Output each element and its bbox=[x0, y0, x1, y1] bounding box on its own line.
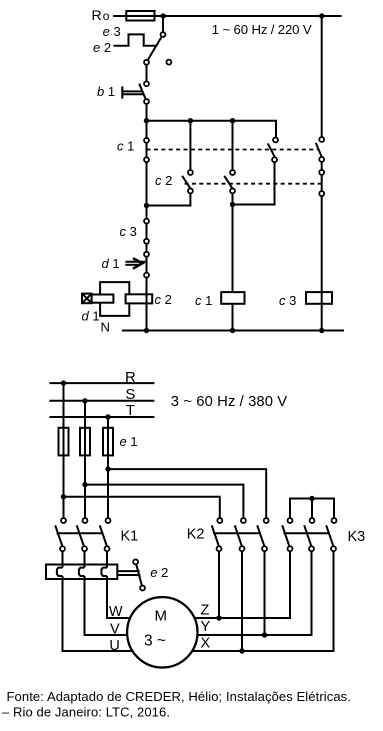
wire c1 coil to N bbox=[232, 304, 234, 331]
wire phase bus T bbox=[49, 416, 154, 418]
contact d1 NC upper circle bbox=[144, 252, 149, 257]
svg-text:S: S bbox=[125, 386, 135, 403]
switch e3 upper contact circle bbox=[161, 32, 166, 37]
coil d1 rectangle bbox=[92, 295, 114, 303]
node junction dot bus right bbox=[230, 118, 235, 123]
wire R drop bbox=[63, 383, 65, 517]
contactor K1 pole3 blade bbox=[100, 525, 107, 545]
pushbutton b1 blade bbox=[139, 84, 146, 101]
node N dot c3 bbox=[319, 328, 324, 333]
wire T tap to K2 pole3 bbox=[108, 469, 266, 517]
contact c2 NO upper circle bbox=[188, 170, 193, 175]
node dot S tap to K2 bbox=[82, 482, 87, 487]
svg-text:N: N bbox=[101, 319, 110, 334]
contact c2 NO blade bbox=[182, 176, 190, 189]
svg-text:d 1: d 1 bbox=[82, 308, 100, 323]
node junction dot G self hold return bbox=[144, 203, 149, 208]
node dot K3 bridge bbox=[309, 496, 314, 501]
pushbutton b1 lower contact circle bbox=[144, 99, 149, 104]
svg-text:M: M bbox=[155, 608, 168, 625]
svg-text:e 2: e 2 bbox=[150, 565, 168, 580]
contact d1 NC lower circle bbox=[144, 273, 149, 278]
wire K1 pole2 to V bbox=[84, 552, 86, 568]
linkage dashed line c1 bbox=[147, 149, 318, 151]
overload e2 trip lever bbox=[117, 570, 139, 572]
pushbutton b1 plunger bar bbox=[121, 86, 123, 98]
contactor K3 pole blades bbox=[282, 525, 289, 545]
contactor K2 upper circles bbox=[217, 518, 222, 523]
wire from top junction down to e3 contact bbox=[162, 16, 164, 32]
contact c1c NO branch at x 275 bbox=[268, 143, 275, 157]
svg-text:Y: Y bbox=[201, 619, 211, 635]
svg-text:K2: K2 bbox=[187, 527, 205, 543]
contactor K1 pole2 blade bbox=[77, 525, 84, 545]
switch e3 spare contact circle bbox=[166, 60, 171, 65]
wire c1c branch L return bbox=[234, 163, 275, 205]
node dot R tap bbox=[61, 380, 66, 385]
svg-text:e 1: e 1 bbox=[120, 434, 138, 449]
svg-text:W: W bbox=[109, 604, 123, 620]
contact c3 NC lower circle bbox=[144, 239, 149, 244]
contact c1b NO blade bbox=[224, 176, 232, 189]
fuse e1 pole1 bbox=[59, 428, 69, 456]
contact c2 self-hold branch wire bbox=[189, 121, 191, 170]
contactor K2 drop pole1 to Z bbox=[218, 552, 220, 618]
node dot T tap to K2 bbox=[105, 466, 110, 471]
svg-text:c 3: c 3 bbox=[279, 293, 296, 308]
linkage dashed line c2 bbox=[181, 183, 322, 185]
overload e2 trip contact circles bbox=[133, 559, 138, 564]
svg-text:c 2: c 2 bbox=[155, 292, 172, 307]
contactor K3 star bridge bbox=[290, 499, 334, 518]
wire phase bus R bbox=[49, 382, 154, 384]
wire K1 pole3 to W bbox=[106, 552, 108, 568]
svg-text:– Rio de Janeiro: LTC, 2016.: – Rio de Janeiro: LTC, 2016. bbox=[2, 705, 170, 720]
motor M circle bbox=[127, 597, 197, 667]
svg-text:R: R bbox=[125, 369, 136, 386]
svg-text:K3: K3 bbox=[348, 529, 366, 545]
overload relay e2 box bbox=[46, 565, 117, 580]
svg-text:K1: K1 bbox=[121, 528, 139, 544]
contactor K3 upper circles bbox=[288, 518, 293, 523]
switch e3 lower contact circle bbox=[144, 60, 149, 65]
contact c1b NO lower circle bbox=[230, 188, 235, 193]
coil c2 parallel loop top bbox=[100, 282, 129, 294]
svg-text:T: T bbox=[126, 402, 135, 419]
actuator d1 arrow shaft bbox=[125, 261, 146, 263]
wire horizontal bus below b1 bbox=[147, 121, 277, 137]
wire S drop bbox=[84, 401, 86, 518]
wire R tap to K2 pole1 bbox=[64, 497, 220, 518]
svg-text:U: U bbox=[109, 638, 119, 654]
svg-text:e 2: e 2 bbox=[93, 40, 111, 55]
svg-text:3 ~: 3 ~ bbox=[144, 632, 166, 649]
actuator e2 step linkage bbox=[114, 34, 157, 45]
svg-text:V: V bbox=[110, 621, 120, 637]
coil c2 parallel loop bottom bbox=[100, 303, 129, 316]
wire right branch vertical bbox=[321, 16, 323, 137]
wire b1 to bus junction bbox=[146, 104, 148, 120]
contactor K1 pole1 blade bbox=[55, 525, 62, 545]
contact c1b NO upper circle bbox=[230, 170, 235, 175]
contactor K1 lower circles bbox=[60, 546, 65, 551]
wire c1 contact down to coil bbox=[232, 194, 234, 292]
svg-text:c 3: c 3 bbox=[120, 224, 137, 239]
svg-text:e 3: e 3 bbox=[103, 24, 121, 39]
contact c1 NC lower circle bbox=[144, 157, 149, 162]
contactor K1 upper circles bbox=[61, 518, 66, 523]
contact c1d NO blade right branch bbox=[316, 143, 322, 157]
node N dot c1 bbox=[230, 328, 235, 333]
svg-text:c 2: c 2 bbox=[155, 173, 172, 188]
svg-text:o: o bbox=[103, 9, 110, 23]
coil c1 rectangle bbox=[221, 292, 244, 304]
wire right branch to coil c3 bbox=[321, 197, 323, 331]
wire between right branch contacts bbox=[321, 162, 323, 190]
node junction dot top right bbox=[319, 13, 324, 18]
overload e2 heater bump pole1 bbox=[57, 568, 63, 576]
contactor K1 linkage bbox=[57, 532, 104, 534]
wire motor Y lead bbox=[162, 552, 312, 635]
svg-text:Fonte: Adaptado de CREDER, Hél: Fonte: Adaptado de CREDER, Hélio; Instal… bbox=[7, 689, 352, 704]
svg-text:X: X bbox=[201, 635, 211, 651]
wire T drop bbox=[107, 417, 109, 518]
wire e3 to b1 bbox=[146, 65, 148, 81]
contactor K2 linkage bbox=[213, 532, 261, 534]
svg-text:3 ~ 60 Hz / 380 V: 3 ~ 60 Hz / 380 V bbox=[171, 394, 287, 410]
coil c2 rectangle bbox=[126, 294, 153, 303]
overload e2 heater bump pole3 bbox=[101, 568, 107, 576]
node junction dot bus left bbox=[144, 118, 149, 123]
actuator d1 arrow head bbox=[133, 258, 142, 268]
svg-text:c 1: c 1 bbox=[195, 293, 212, 308]
svg-text:b 1: b 1 bbox=[97, 84, 115, 99]
fuse e1 pole2 bbox=[80, 428, 90, 456]
pushbutton b1 upper contact circle bbox=[144, 81, 149, 86]
switch e3/e2 changeover blade bbox=[148, 37, 162, 60]
svg-text:1 ~ 60 Hz / 220 V: 1 ~ 60 Hz / 220 V bbox=[212, 22, 312, 37]
node N dot c2 bbox=[144, 328, 149, 333]
node dot T tap bbox=[105, 414, 110, 419]
wire main line through c2 coil to N bbox=[146, 294, 148, 330]
node junction dot at fuse output bbox=[161, 13, 166, 18]
overload e2 trip contact blade bbox=[136, 565, 142, 586]
wire phase bus S bbox=[49, 400, 154, 402]
wire S tap to K2 pole2 bbox=[85, 485, 243, 518]
svg-text:d 1: d 1 bbox=[102, 256, 120, 271]
wire motor X lead bbox=[162, 552, 334, 651]
contact c1d lower circle bbox=[319, 157, 324, 162]
node dot S tap bbox=[82, 398, 87, 403]
fuse Ro control fuse bbox=[126, 11, 154, 21]
contactor K2 lower circles bbox=[217, 546, 222, 551]
node junction dot c1 branch bbox=[230, 202, 235, 207]
wire motor Z lead bbox=[162, 552, 290, 618]
contactor K2 drop pole2 to X bbox=[241, 552, 243, 651]
node junction dot bus middle bbox=[188, 118, 193, 123]
contact c2b NC lower circle bbox=[319, 191, 324, 196]
contact c2b NC upper circle bbox=[319, 170, 324, 175]
contact c1c lower circle bbox=[272, 157, 277, 162]
contact c3 NC upper circle bbox=[144, 219, 149, 224]
svg-text:Z: Z bbox=[201, 603, 210, 619]
node dot R tap to K2 bbox=[61, 494, 66, 499]
wire K1 pole1 to U bbox=[62, 552, 64, 568]
contactor K3 linkage bbox=[284, 532, 331, 534]
pushbutton b1 plunger link lines bbox=[122, 90, 142, 92]
contact c1d upper circle bbox=[319, 137, 324, 142]
wire neutral bus N bbox=[122, 330, 344, 332]
contact c2 NO lower circle bbox=[188, 188, 193, 193]
fuse e1 pole3 bbox=[103, 428, 113, 456]
wire top rail L1 bbox=[113, 15, 342, 17]
svg-text:R: R bbox=[92, 7, 102, 23]
contactor K2 drop pole3 to Y bbox=[264, 552, 266, 635]
contactor K2 pole blades bbox=[212, 525, 219, 545]
contact c1 NC upper circle bbox=[144, 138, 149, 143]
wire c2 contact to main line bbox=[148, 194, 190, 206]
contactor K3 lower circles bbox=[288, 546, 293, 551]
wire left control line through c1 c3 d1 contacts bbox=[146, 121, 148, 295]
contact c1 branch wire to coil c1 bbox=[232, 121, 234, 170]
overload e2 heater bump pole2 bbox=[79, 568, 85, 576]
svg-text:c 1: c 1 bbox=[117, 139, 134, 154]
timer d1 crossed box bbox=[82, 294, 92, 304]
coil c3 rectangle bbox=[306, 292, 332, 304]
contact c1c upper circle bbox=[273, 137, 278, 142]
